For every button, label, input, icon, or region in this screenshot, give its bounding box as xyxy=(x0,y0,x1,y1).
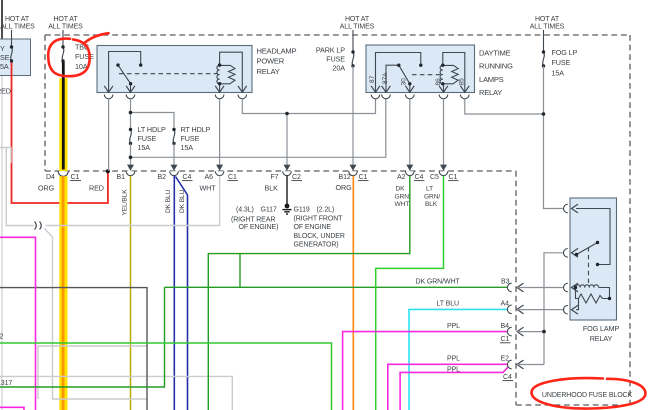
svg-text:DK BLU: DK BLU xyxy=(165,189,172,213)
left fuse box (cut at page edge) xyxy=(0,30,31,76)
svg-text:FOG LAMP: FOG LAMP xyxy=(583,324,620,333)
svg-text:FUSE: FUSE xyxy=(181,134,200,143)
ground G117/G119 xyxy=(283,204,292,214)
daytime relay terminals xyxy=(371,86,469,99)
svg-text:GENERATOR): GENERATOR) xyxy=(294,242,339,249)
svg-text:LAMPS: LAMPS xyxy=(479,75,504,84)
wire PPL to B4 xyxy=(343,332,510,410)
daytime relay switch xyxy=(376,53,442,93)
svg-text:C4: C4 xyxy=(183,174,192,181)
svg-text:FUSE: FUSE xyxy=(138,134,157,143)
svg-text:OF ENGINE): OF ENGINE) xyxy=(239,224,279,231)
svg-text:20A: 20A xyxy=(333,64,346,73)
svg-text:D4: D4 xyxy=(46,174,55,181)
svg-text:ORG: ORG xyxy=(38,184,55,193)
svg-text:HEADLAMP: HEADLAMP xyxy=(257,46,297,55)
svg-text:FUSE: FUSE xyxy=(552,58,571,67)
wire: DRL 86 to C5 xyxy=(443,99,445,165)
svg-text:C1: C1 xyxy=(71,174,80,181)
wire: park fuse to B12 xyxy=(352,66,354,165)
svg-text:FOG LP: FOG LP xyxy=(552,48,578,57)
svg-text:PPL: PPL xyxy=(447,323,460,330)
svg-text:A6: A6 xyxy=(205,174,214,181)
svg-text:C4: C4 xyxy=(415,174,424,181)
svg-text:GRN/: GRN/ xyxy=(424,193,440,200)
svg-text:RUNNING: RUNNING xyxy=(479,62,513,71)
svg-text:C2: C2 xyxy=(292,174,301,181)
headlamp power relay box xyxy=(97,46,296,93)
svg-text:RED: RED xyxy=(89,184,104,193)
svg-text:A2: A2 xyxy=(397,174,406,181)
svg-text:ORG: ORG xyxy=(336,183,353,192)
svg-text:PPL: PPL xyxy=(447,355,460,362)
svg-text:OF ENGINE: OF ENGINE xyxy=(294,224,332,231)
connector row: B1 (YEL/BLK) xyxy=(117,165,135,216)
fog relay switch xyxy=(575,209,610,284)
svg-text:C1: C1 xyxy=(359,174,368,181)
connector row: F7 / C2 (BLK) xyxy=(265,165,303,193)
headlamp relay coil xyxy=(217,52,242,92)
svg-text:15A: 15A xyxy=(181,143,194,152)
wire ORG thick below row xyxy=(59,176,67,410)
wire: headlamp relay coil to DRL 87 with BLK ground branch xyxy=(242,99,375,165)
annotation: red ellipse around UNDERHOOD FUSE BLOCK xyxy=(531,378,645,408)
svg-text:HOT AT: HOT AT xyxy=(345,16,370,23)
svg-text:(RIGHT FRONT: (RIGHT FRONT xyxy=(294,215,344,222)
svg-text:YEL/BLK: YEL/BLK xyxy=(122,189,129,216)
svg-text:F7: F7 xyxy=(271,174,279,181)
svg-text:SE: SE xyxy=(0,53,10,62)
svg-text:DK BLU: DK BLU xyxy=(179,189,186,213)
wire WHT: A6 continuation with inline connector >> xyxy=(0,148,220,400)
svg-text:RT HDLP: RT HDLP xyxy=(181,125,211,134)
svg-text:E2: E2 xyxy=(501,355,510,362)
svg-text:RED: RED xyxy=(0,87,11,96)
pocket connector B4/C1 xyxy=(507,327,523,336)
svg-text:DAYTIME: DAYTIME xyxy=(479,49,511,58)
svg-text:PARK LP: PARK LP xyxy=(316,46,345,55)
svg-text:LT BLU: LT BLU xyxy=(437,301,460,308)
svg-text:B12: B12 xyxy=(339,174,351,181)
fog lamp relay box xyxy=(570,198,619,343)
label HOT AT ALL TIMES (fog) xyxy=(530,16,565,31)
svg-text:C5: C5 xyxy=(430,174,439,181)
svg-text:LT: LT xyxy=(426,186,433,193)
annotation: hand-drawn red circle around TBC fuse xyxy=(48,33,108,76)
connector row: A6 / C1 (WHT) xyxy=(200,165,239,193)
svg-text:C4: C4 xyxy=(503,374,512,381)
ground labels G117 (4.3L) / G119 (2.2L) xyxy=(231,207,345,249)
RT HDLP FUSE 15A xyxy=(172,125,210,152)
svg-text:PPL: PPL xyxy=(447,366,460,373)
wire: DRL 30 to A2 xyxy=(409,99,411,165)
svg-text:ALL TIMES: ALL TIMES xyxy=(340,24,375,31)
wire: headlamp relay 87A(WHT feed) to A6 xyxy=(219,99,221,165)
wire ORG thick: TBC feed (yellow w/ black core above connector row) xyxy=(59,62,67,171)
svg-text:Y: Y xyxy=(0,44,5,53)
label HOT AT ALL TIMES (TBC) xyxy=(48,16,83,31)
svg-text:(RIGHT REAR: (RIGHT REAR xyxy=(231,216,275,223)
svg-text:DK: DK xyxy=(396,186,406,193)
svg-text:5A: 5A xyxy=(0,62,9,71)
connector row: A2 / C4 (DK GRN/WHT) xyxy=(395,165,425,209)
svg-text:(2.2L): (2.2L) xyxy=(317,207,335,214)
wire: headlamp relay 87 to headlamp fuses xyxy=(129,99,174,130)
svg-text:30: 30 xyxy=(401,78,408,86)
svg-text:DK GRN/WHT: DK GRN/WHT xyxy=(416,279,461,286)
pocket connector A4 xyxy=(507,305,523,314)
svg-text:WHT: WHT xyxy=(200,184,217,193)
svg-text:ALL TIMES: ALL TIMES xyxy=(530,24,565,31)
svg-text:2: 2 xyxy=(0,333,4,340)
svg-text:B2: B2 xyxy=(158,174,167,181)
wire: LT fuse output to B1 and to DRL 87A xyxy=(129,99,386,165)
svg-text:FUSE: FUSE xyxy=(75,52,94,61)
svg-text:(4.3L): (4.3L) xyxy=(236,207,254,214)
FOG LP FUSE 15A xyxy=(542,30,578,78)
label UNDERHOOD FUSE BLOCK xyxy=(542,392,633,399)
label HOT AT ALL TIMES (park) xyxy=(340,16,375,31)
svg-text:B1: B1 xyxy=(117,174,126,181)
wire BLK: F7 to ground xyxy=(286,176,288,204)
svg-text:85: 85 xyxy=(459,78,466,86)
wire PPL (left) xyxy=(0,237,36,410)
PARK LP FUSE 20A xyxy=(316,30,355,73)
wire LT BLU net to A4 xyxy=(409,309,510,410)
svg-text:HOT AT: HOT AT xyxy=(5,16,30,23)
svg-text:WHT: WHT xyxy=(395,201,410,208)
daytime relay pin labels 87 87A 30 86 85 xyxy=(369,72,466,86)
TBC FUSE 10A xyxy=(61,30,94,71)
label HOT AT ALL TIMES (left, cut) xyxy=(0,16,35,31)
svg-text:G117: G117 xyxy=(261,207,277,214)
LT HDLP FUSE 15A xyxy=(129,125,166,152)
pocket gray wires to fog relay xyxy=(517,253,564,365)
svg-text:15A: 15A xyxy=(138,143,151,152)
headlamp relay switch xyxy=(109,52,217,93)
wire LT GRN/BLK net: C5 down-left xyxy=(376,176,444,410)
connector row: B2 / C4 (DK BLU) xyxy=(158,165,193,213)
svg-text:86: 86 xyxy=(435,78,442,86)
svg-text:RELAY: RELAY xyxy=(257,67,280,76)
svg-text:15A: 15A xyxy=(552,69,565,78)
fog relay terminals xyxy=(564,204,579,314)
pocket connector B3 xyxy=(507,283,523,292)
svg-text:1317: 1317 xyxy=(0,380,12,387)
svg-text:BLK: BLK xyxy=(425,201,438,208)
svg-text:RELAY: RELAY xyxy=(479,88,502,97)
svg-text:FUSE: FUSE xyxy=(326,55,345,64)
svg-text:BLK: BLK xyxy=(265,184,279,193)
svg-text:ALL TIMES: ALL TIMES xyxy=(48,24,83,31)
svg-text:HOT AT: HOT AT xyxy=(53,16,78,23)
wire: RT fuse output to B2 xyxy=(173,144,175,165)
headlamp relay terminals xyxy=(104,86,247,99)
daytime running lamps relay box xyxy=(366,45,513,97)
label 2 (cut) xyxy=(0,333,4,340)
wire YEL/BLK below B1 xyxy=(130,176,132,410)
wires PPL (two) to E2 xyxy=(388,364,510,410)
wire GRN horizontal (lower) xyxy=(0,343,332,410)
svg-text:HOT AT: HOT AT xyxy=(535,16,560,23)
daytime relay coil xyxy=(440,53,465,93)
svg-text:RELAY: RELAY xyxy=(590,334,613,343)
connector row: C5 / C1 (LT GRN/BLK) xyxy=(424,165,459,209)
wire PPL stub (bottom left corner) xyxy=(0,407,24,410)
svg-text:87A: 87A xyxy=(382,72,389,84)
svg-text:POWER: POWER xyxy=(257,57,285,66)
wire: DRL 85 to fog fuse node xyxy=(465,99,544,114)
label 1317 (cut) xyxy=(0,380,12,387)
wire ORG thin below B12 xyxy=(352,176,354,410)
svg-text:C1: C1 xyxy=(449,174,458,181)
wire: fog fuse to fog relay 30 xyxy=(542,66,564,209)
wire DK GRN/WHT net: A2 to B3 xyxy=(0,176,510,410)
wires DK BLU below B2 xyxy=(174,176,187,410)
svg-text:G119: G119 xyxy=(294,207,310,214)
connector row: B12 / C1 (ORG) xyxy=(336,165,369,192)
svg-text:UNDERHOOD FUSE BLOCK: UNDERHOOD FUSE BLOCK xyxy=(542,392,633,399)
fog relay coil xyxy=(574,285,611,310)
svg-text:ALL TIMES: ALL TIMES xyxy=(0,24,35,31)
wire: headlamp relay 30 to junction with RED xyxy=(108,99,110,171)
pocket connector E2/C4 xyxy=(507,360,523,369)
svg-text:C1: C1 xyxy=(228,174,237,181)
left fuse symbol xyxy=(10,45,13,62)
svg-text:GRN/: GRN/ xyxy=(395,193,411,200)
page left border xyxy=(1,0,3,410)
svg-text:C1: C1 xyxy=(501,336,510,343)
wire RED: left fuse to headlamp relay 30 junction xyxy=(0,63,110,204)
svg-text:BLOCK, UNDER: BLOCK, UNDER xyxy=(294,233,345,240)
svg-text:87: 87 xyxy=(369,75,376,83)
svg-text:LT HDLP: LT HDLP xyxy=(138,125,166,134)
connector row: D4 / C1 (ORG thick) xyxy=(38,171,81,192)
inline connector symbol >> on WHT wire xyxy=(35,222,42,230)
dark gray wire box (lower left) xyxy=(0,288,147,410)
pocket wire labels xyxy=(416,279,512,381)
light gray harness outline (lower left) xyxy=(0,346,232,410)
